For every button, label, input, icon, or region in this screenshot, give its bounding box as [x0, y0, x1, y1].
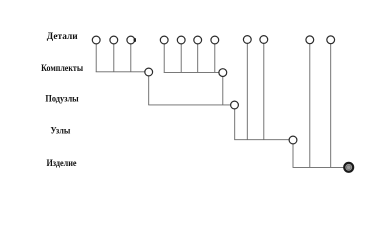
wire bus group2	[164, 71, 219, 73]
wire drop D2	[113, 44, 115, 72]
wire bus subassembly	[148, 104, 230, 106]
wire drop D8	[246, 44, 248, 140]
node detail D6	[194, 36, 202, 44]
wire drop D5	[180, 44, 182, 72]
svg-text:Подузлы: Подузлы	[45, 95, 79, 105]
node detail D7	[211, 36, 219, 44]
svg-text:Комплекты: Комплекты	[41, 64, 84, 74]
svg-text:Узлы: Узлы	[51, 127, 71, 137]
wire drop D3	[130, 44, 132, 72]
wire drop K1	[148, 76, 150, 105]
node detail D4	[160, 36, 168, 44]
node assembly U1	[289, 136, 297, 144]
node subassembly P1	[231, 101, 239, 109]
node kit K2	[219, 69, 227, 77]
node detail D8	[243, 36, 251, 44]
wire drop D9	[263, 44, 265, 140]
wire drop K2	[222, 77, 224, 105]
wire drop U1	[292, 144, 294, 168]
node kit K1	[145, 68, 153, 76]
node product (filled)	[344, 163, 353, 172]
wire drop D1	[95, 44, 97, 72]
node detail D10	[306, 36, 314, 44]
wire drop D10	[309, 44, 311, 167]
wire bus product	[293, 166, 344, 168]
node detail D2	[110, 36, 118, 44]
node detail D5	[177, 36, 185, 44]
svg-text:Детали: Детали	[47, 32, 78, 42]
svg-text:Изделие: Изделие	[46, 159, 76, 169]
node detail D9	[260, 36, 268, 44]
wire drop D7	[214, 44, 216, 72]
node detail D1	[92, 36, 100, 44]
wire drop D4	[163, 44, 165, 72]
node detail D3	[127, 36, 135, 44]
wire drop D11	[330, 44, 332, 167]
wire drop D6	[197, 44, 199, 72]
node detail D11	[327, 36, 335, 44]
wire bus assembly	[234, 139, 289, 141]
wire drop P1	[234, 109, 236, 140]
wire bus group1	[96, 71, 145, 73]
